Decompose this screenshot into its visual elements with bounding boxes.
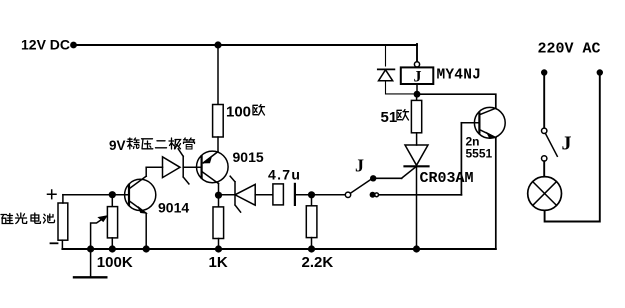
svg-text:J: J	[414, 69, 422, 86]
wire 100ohm branch	[217, 45, 219, 104]
label glyph 管	[184, 138, 195, 149]
resistor R4 51ohm	[411, 94, 421, 145]
resistor R3 2.2K	[306, 195, 317, 249]
capacitor C1 4.7u	[273, 184, 346, 205]
svg-text:12V DC: 12V DC	[21, 37, 70, 53]
svg-text:J: J	[562, 133, 572, 155]
minus terminal mark	[51, 242, 58, 244]
flyback diode D3	[378, 45, 414, 94]
svg-text:9015: 9015	[233, 149, 264, 165]
wire 9014 emitter down	[145, 213, 147, 249]
wire relay junction to 2n5551 collector	[417, 94, 496, 108]
photocell BT1	[58, 195, 68, 249]
relay coil K1 MY4NJ	[401, 62, 434, 91]
label glyph 光	[16, 213, 27, 224]
svg-text:2.2K: 2.2K	[302, 254, 334, 271]
svg-text:9014: 9014	[158, 200, 189, 216]
potentiometer RP 100K	[91, 195, 118, 249]
resistor R2 1K	[213, 195, 224, 249]
svg-text:1K: 1K	[209, 254, 228, 271]
220V AC terminals	[541, 69, 547, 75]
transistor Q1 9014	[125, 176, 156, 213]
node pot top junction	[109, 191, 116, 198]
transistor Q3 2n5551	[461, 107, 505, 138]
switch J mains	[542, 128, 558, 161]
plus terminal mark	[48, 190, 57, 199]
wire 220V left down	[543, 73, 545, 129]
wire D2 to capacitor	[255, 194, 273, 196]
label glyph 极	[169, 138, 181, 149]
zener D1 9V (between 9014 and 9015)	[146, 149, 201, 184]
wire photocell top rail to 9014 base	[63, 194, 129, 196]
svg-text:51: 51	[381, 109, 398, 126]
transistor Q2 9015	[197, 151, 229, 184]
switch J contact (signal)	[345, 175, 378, 198]
node pot bottom on ground rail	[109, 245, 116, 252]
wire 2n5551 base down	[460, 123, 462, 195]
node 9014 emitter on ground rail	[143, 245, 150, 252]
wire 2n5551 emitter down	[495, 138, 497, 249]
node 9015 collector junction	[215, 192, 222, 199]
label glyph 硅	[1, 214, 13, 224]
resistor 100ohm	[213, 105, 224, 138]
wire 9014 collector up	[145, 167, 147, 176]
wire 100ohm to 9015 emitter	[217, 137, 219, 152]
wire switch to lamp	[543, 161, 545, 176]
ground	[90, 249, 92, 277]
wire lamp to 220V right	[545, 73, 600, 222]
wire 12V top rail	[74, 44, 418, 46]
svg-text:MY4NJ: MY4NJ	[437, 68, 482, 84]
label glyph 稳	[127, 138, 139, 149]
label glyph 池	[44, 214, 55, 223]
label glyph 二	[156, 141, 167, 148]
svg-text:5551: 5551	[466, 147, 493, 161]
wire 9015 collector down	[218, 184, 220, 196]
node 1K bottom	[215, 245, 222, 252]
svg-text:100: 100	[226, 104, 251, 121]
node relay bottom junction	[414, 91, 421, 98]
node junction top rail to 100ohm	[214, 41, 221, 48]
label glyph for 51欧	[397, 110, 409, 121]
label glyph 压	[142, 139, 153, 149]
wire switch lower contact to 2n5551 base	[379, 194, 461, 196]
lamp EL	[528, 177, 562, 211]
node SCR cathode on ground rail	[413, 245, 420, 252]
svg-text:9V: 9V	[109, 138, 126, 153]
svg-text:J: J	[355, 156, 364, 176]
zener D2	[230, 176, 255, 212]
node 2.2K top junction	[308, 191, 315, 198]
label glyph for 100欧	[253, 105, 265, 116]
svg-text:4.7u: 4.7u	[268, 167, 301, 183]
node 2.2K bottom	[308, 245, 315, 252]
wire ground rail	[62, 248, 495, 250]
svg-text:220V AC: 220V AC	[538, 41, 601, 58]
wire middle rail to zener D2	[219, 194, 236, 196]
node 12V DC terminal	[70, 42, 77, 49]
wire switch top contact to SCR gate	[373, 177, 401, 179]
svg-text:100K: 100K	[97, 254, 133, 271]
svg-text:CR03AM: CR03AM	[420, 170, 474, 187]
wire top rail down to relay	[416, 44, 418, 62]
SCR CR03AM	[402, 145, 429, 249]
node ground tap	[87, 245, 94, 252]
label glyph 电	[31, 213, 41, 223]
